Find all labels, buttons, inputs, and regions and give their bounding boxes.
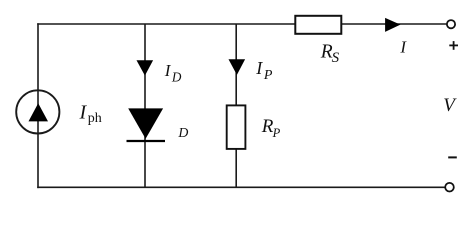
diode D — [127, 108, 166, 141]
wire Rp branch — [235, 24, 237, 187]
svg-text:P: P — [272, 126, 281, 140]
wire diode branch — [144, 24, 146, 187]
label IP — [255, 58, 273, 83]
svg-text:I: I — [255, 58, 263, 78]
terminal + (top output node) — [447, 20, 455, 28]
svg-text:D: D — [177, 125, 188, 140]
svg-text:P: P — [263, 68, 273, 83]
svg-text:I: I — [79, 101, 88, 123]
terminal - (bottom output node) — [445, 183, 454, 192]
label RP — [261, 116, 281, 140]
resistor RP — [227, 105, 246, 148]
resistor RS — [295, 16, 341, 34]
label ID — [164, 61, 182, 85]
minus sign — [448, 156, 457, 158]
current arrow ID — [137, 60, 154, 75]
label Iph — [79, 101, 102, 126]
current arrow IP — [229, 59, 246, 75]
svg-text:S: S — [332, 50, 340, 66]
current source Iph — [16, 90, 59, 133]
svg-text:ph: ph — [88, 111, 102, 126]
plus sign — [449, 41, 458, 50]
wire left vertical — [37, 23, 39, 188]
label RS — [320, 42, 340, 67]
current arrow I — [385, 18, 400, 32]
wire top rail — [37, 23, 447, 25]
svg-text:D: D — [171, 70, 182, 85]
wire bottom rail — [37, 186, 445, 188]
